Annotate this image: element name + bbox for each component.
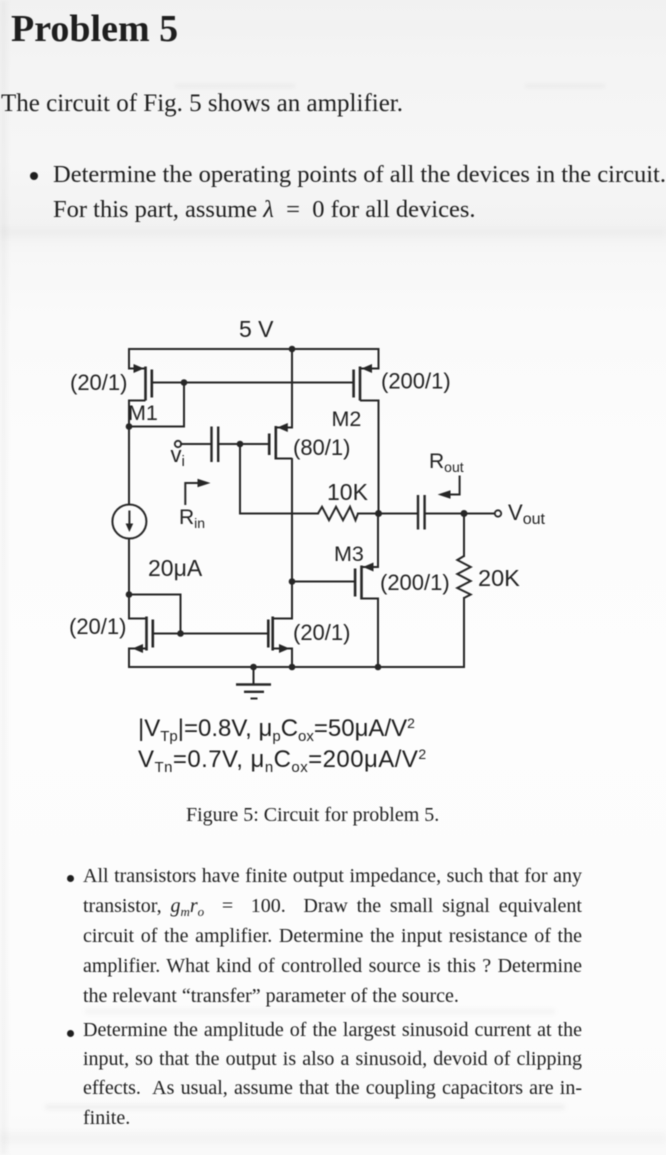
Rin probe arrow	[185, 483, 199, 505]
arrow of M5 source	[279, 644, 290, 653]
wire: vout node to vout terminal	[464, 513, 495, 515]
figure caption	[186, 804, 439, 827]
junction dots	[126, 346, 468, 671]
wire: 10K right end to output node	[358, 513, 379, 515]
wire: C2 to vout node	[425, 513, 464, 515]
wire: ground stub	[253, 667, 255, 684]
faint photo artifacts	[0, 0, 7, 1155]
svg-text:Rout: Rout	[429, 450, 464, 475]
circuit text labels	[69, 316, 545, 645]
svg-text:(20/1): (20/1)	[293, 620, 350, 645]
wire: 80/1 source column to 5V rail	[291, 349, 293, 428]
wire: vout node down to 20K	[463, 514, 465, 557]
wire: M4 diode connection	[129, 595, 181, 634]
arrow of M2 source	[362, 364, 373, 373]
wire: vi to capacitor C1	[181, 443, 211, 445]
svg-text:M1: M1	[128, 401, 158, 425]
arrow of M4 source	[133, 644, 144, 653]
wire: left rail M1 drain down to current source	[128, 401, 130, 505]
bottom bullet 2	[62, 1016, 582, 1133]
arrow of M1 source	[134, 364, 145, 373]
wire: 80/1 drain column down to M5	[291, 459, 293, 619]
wire: bottom ground rail	[129, 666, 464, 668]
Rout probe arrow	[448, 476, 460, 495]
transistor M5 (20/1) NMOS bottom-middle	[268, 617, 292, 668]
svg-text:20μA: 20μA	[148, 555, 203, 581]
node: M3 gate at first stage	[289, 578, 296, 585]
node: vout/20K	[461, 510, 468, 517]
svg-text:10K: 10K	[327, 479, 369, 505]
svg-text:M3: M3	[334, 542, 364, 566]
wire: M4-M5 gate bus	[155, 633, 268, 635]
intro line	[1, 90, 403, 118]
node: input after C1	[237, 441, 244, 448]
wire: C1 to input node	[219, 443, 240, 445]
arrow of 80/1 source	[277, 423, 288, 432]
resistor 20K	[457, 556, 470, 598]
node: output of M2/M3/10K	[375, 510, 382, 517]
wire: 20K bottom to ground rail	[463, 598, 465, 667]
wire: M1 diode connection	[129, 383, 184, 427]
ground	[236, 685, 271, 699]
svg-text:5 V: 5 V	[239, 316, 274, 342]
wire: 5V top rail	[129, 348, 379, 350]
wire: left rail current source to M4	[128, 539, 130, 619]
resistor 10K	[318, 507, 358, 520]
wire: output node to C2	[379, 513, 418, 515]
node: M1 gate/diode	[181, 379, 188, 386]
node: ground stub	[250, 664, 257, 671]
svg-text:Vout: Vout	[508, 500, 545, 528]
transistor M3 (200/1)	[355, 514, 378, 668]
current source 20uA	[112, 505, 146, 539]
terminal vi	[175, 441, 181, 447]
transistor M4 (20/1) NMOS bottom-left	[129, 617, 153, 668]
svg-text:(200/1): (200/1)	[381, 369, 451, 394]
svg-text:(200/1): (200/1)	[380, 570, 450, 595]
node: M5 source at rail	[289, 664, 296, 671]
svg-text:Rin: Rin	[179, 506, 205, 531]
wire: input node to gate of 80/1	[240, 443, 268, 445]
wire: M1-M2 gate bus	[154, 382, 353, 384]
node: M1 drain-diode join	[126, 423, 133, 430]
bottom bullet 1	[62, 861, 582, 1011]
svg-text:20K: 20K	[478, 565, 520, 591]
transistor 80/1 PMOS	[269, 426, 292, 460]
top bullet	[30, 157, 666, 227]
svg-text:(80/1): (80/1)	[293, 435, 350, 460]
capacitor C1 input coupling	[212, 427, 219, 463]
terminal vout	[495, 510, 501, 516]
svg-text:vi: vi	[171, 442, 185, 470]
arrow of M3 top lead	[363, 563, 374, 572]
node: M4 drain-diode	[126, 591, 133, 598]
svg-text:(20/1): (20/1)	[69, 614, 126, 639]
device equations	[138, 714, 427, 775]
capacitor C2 output coupling	[418, 495, 425, 530]
node: 80/1 source at rail	[289, 346, 296, 353]
title	[11, 7, 178, 51]
wire: input node down and right to 10K	[240, 444, 318, 514]
transistor M1 (20/1) PMOS	[129, 349, 152, 401]
svg-text:M2: M2	[332, 407, 362, 431]
node: M3 source at rail	[375, 664, 382, 671]
wire: M3 gate to first stage node	[292, 581, 354, 583]
svg-text:(20/1): (20/1)	[70, 370, 127, 395]
transistor M2 (200/1) PMOS	[354, 349, 379, 514]
node: M4 gate bus	[177, 630, 184, 637]
